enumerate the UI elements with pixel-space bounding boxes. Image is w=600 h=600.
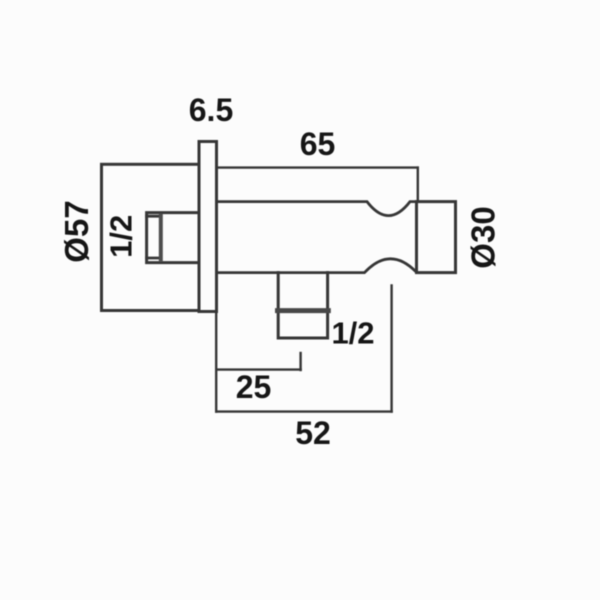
outlet nipple thick step line [278,308,329,313]
dimension line 25 [216,368,300,370]
dimension line 65 [217,166,418,168]
handshower holder end cap (Ø30) [417,202,456,273]
1/2 inlet connector outer body [147,213,199,263]
svg-text:65: 65 [300,126,336,162]
body bottom outline with holder notch [217,259,417,273]
wall flange body (round escutcheon, side view rectangle) [102,164,200,310]
extension line right of 65 dim [417,168,419,202]
extension line right of 52 dim (holder hook centre) [390,286,392,412]
tick at right end of 25 dim [299,353,301,370]
body top outline with holder notch [217,202,417,216]
svg-text:25: 25 [236,369,272,405]
svg-text:Ø30: Ø30 [464,206,501,268]
svg-text:1/2: 1/2 [103,215,138,258]
1/2 inlet connector inner bottom line [147,257,161,260]
svg-text:52: 52 [295,415,331,451]
svg-text:Ø57: Ø57 [58,200,95,262]
left extension line (cover plate edge down to 52 dim) [215,312,217,412]
dimension line 52 [216,410,391,412]
1/2 inlet connector step line [159,216,163,260]
svg-text:6.5: 6.5 [189,92,233,128]
wall cover plate (6.5 thick) [199,142,217,312]
bottom 1/2 outlet nipple [278,273,327,338]
1/2 inlet connector inner top line [147,215,161,218]
svg-text:1/2: 1/2 [331,316,374,351]
